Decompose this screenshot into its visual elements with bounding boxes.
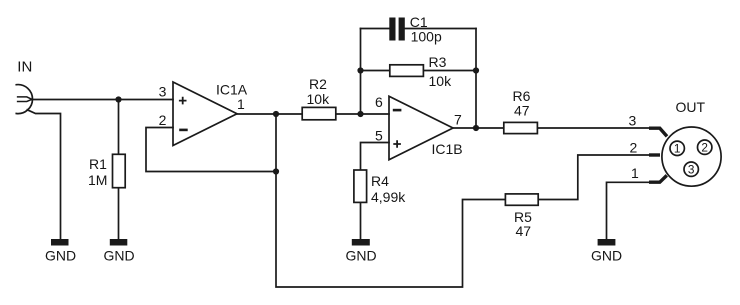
svg-text:4,99k: 4,99k <box>371 189 406 205</box>
svg-text:GND: GND <box>591 248 622 264</box>
svg-text:6: 6 <box>375 94 383 110</box>
svg-text:R3: R3 <box>429 54 447 70</box>
svg-text:47: 47 <box>516 223 532 239</box>
svg-text:3: 3 <box>629 113 637 129</box>
svg-text:R1: R1 <box>89 156 107 172</box>
svg-text:10k: 10k <box>429 73 453 89</box>
svg-text:GND: GND <box>45 248 76 264</box>
svg-text:2: 2 <box>630 140 638 156</box>
svg-text:OUT: OUT <box>676 99 706 115</box>
svg-text:1M: 1M <box>88 172 107 188</box>
svg-text:2: 2 <box>701 141 708 155</box>
svg-text:47: 47 <box>514 102 530 118</box>
svg-text:3: 3 <box>159 84 167 100</box>
svg-text:10k: 10k <box>307 91 331 107</box>
svg-text:3: 3 <box>688 163 695 177</box>
svg-text:1: 1 <box>237 96 245 112</box>
svg-text:5: 5 <box>375 128 383 144</box>
svg-text:1: 1 <box>674 142 681 156</box>
svg-text:IN: IN <box>17 59 32 76</box>
svg-text:R4: R4 <box>371 173 389 189</box>
svg-text:IC1B: IC1B <box>432 141 463 157</box>
svg-text:2: 2 <box>159 112 167 128</box>
svg-text:R2: R2 <box>309 76 327 92</box>
svg-text:7: 7 <box>454 112 462 128</box>
svg-text:GND: GND <box>346 248 377 264</box>
svg-text:GND: GND <box>104 248 135 264</box>
svg-text:100p: 100p <box>411 28 442 44</box>
svg-text:1: 1 <box>631 165 639 181</box>
